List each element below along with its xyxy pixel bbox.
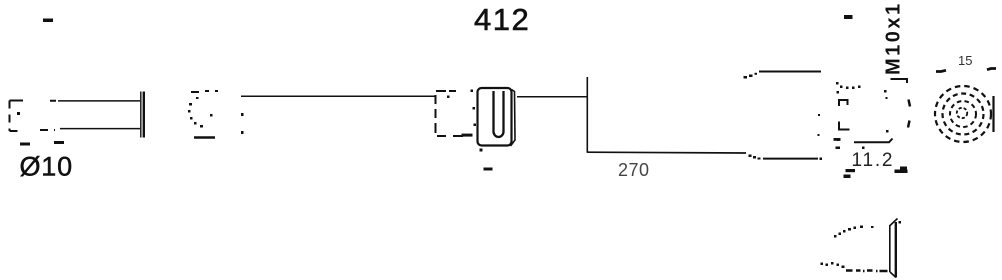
hose line from clip to bend [517,96,588,98]
tick left of end view [900,167,907,170]
right fitting hidden outline dots [818,82,861,149]
end view middle dashed circle [943,94,984,135]
tick mark top-left [43,19,53,23]
svg-text:270: 270 [618,160,650,180]
svg-text:15: 15 [958,53,972,68]
dimension ticks under left fitting [20,141,64,146]
end view outer dashed circle [935,86,991,142]
right fitting bottom bracket [839,122,850,130]
bottom fitting diagonal dotted taper (lower) [821,262,845,268]
hose vertical bend [586,77,588,153]
end view right tangent line [992,96,994,132]
leader arrow marks for M10x1 [884,90,910,133]
tick under clip [484,168,493,171]
clamp outline inner dot [447,96,450,99]
dots under dimension line [836,147,865,150]
left fitting hidden outline (dashed rectangle) [10,101,57,132]
bottom fitting flange top slant [890,219,898,226]
hose lower right line [763,158,818,160]
left fitting inner dot [17,112,20,115]
hose collar dotted curve [188,97,213,128]
tick left of 11.2 [834,138,841,141]
arrow right of 15 [987,69,996,70]
hose lower horizontal run [587,151,746,154]
svg-text:Ø10: Ø10 [20,152,73,182]
ticks under 11.2 [844,169,908,178]
M10x1 underline bracket [891,79,908,83]
hose sag transition dots (bottom) [749,155,761,160]
dot at end of lower right line [820,158,823,161]
left fitting tube bottom line [60,128,140,130]
bottom fitting dashed line [846,269,888,272]
svg-text:M10x1: M10x1 [883,1,905,75]
svg-text:11.2: 11.2 [852,150,895,171]
bottom fitting diagonal dotted taper (upper) [834,226,874,238]
hose collar dashed top line [191,91,218,92]
clip bracket body [478,88,516,146]
clip left edge dots [471,90,483,152]
hose collar bottom line [194,136,215,139]
clamp outline thick bottom dash [462,134,473,137]
bottom fitting flange left line [889,225,891,272]
bottom fitting flange bottom joint [890,272,896,278]
end view center hole [957,108,967,118]
end view inner dashed circle [950,101,976,127]
left fitting tube top line [58,100,140,102]
clamp hidden outline (dashed rectangle) [436,91,464,136]
arrow left of 15 [936,70,946,71]
tick mark top-right [844,15,853,19]
bottom fitting flange right line [895,222,897,278]
hose main line (left straight run) [241,95,436,97]
dimension line over 11.2 [854,139,893,143]
stray dot above bottom fitting [899,221,902,224]
hose upper right dotted lead-in [744,73,758,79]
hose upper right line [759,71,821,73]
hose end dotted edge [241,113,244,134]
clip U-slot [494,91,504,137]
right fitting top bracket [839,100,848,106]
svg-text:412: 412 [474,2,530,37]
left fitting flange [141,92,144,138]
